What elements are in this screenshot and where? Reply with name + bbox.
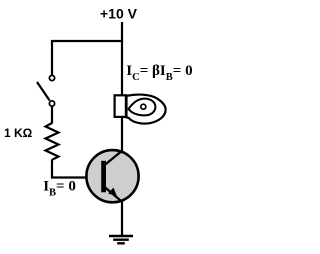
svg-text:+10 V: +10 V: [100, 6, 138, 22]
svg-text:1 KΩ: 1 KΩ: [4, 126, 33, 140]
